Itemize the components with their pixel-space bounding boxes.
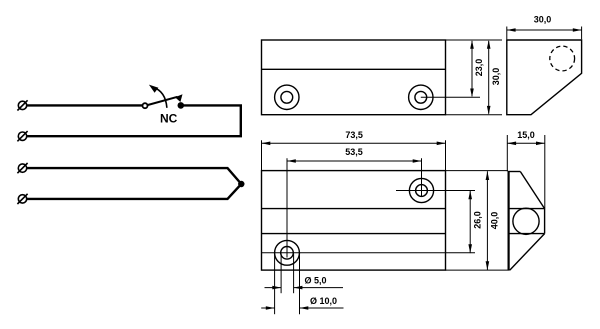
centerline hole H4 [262, 252, 476, 254]
wire W2 [27, 105, 241, 136]
dimension 15,0 [507, 130, 545, 209]
terminal 1 [17, 100, 27, 110]
switch contact dot [178, 102, 185, 109]
dimension 23,0 [470, 40, 484, 97]
svg-text:15,0: 15,0 [517, 130, 535, 140]
svg-text:Ø 10,0: Ø 10,0 [310, 296, 337, 306]
svg-text:53,5: 53,5 [345, 147, 363, 157]
svg-text:30,0: 30,0 [491, 68, 501, 86]
leader from hole H2 [421, 96, 480, 98]
front view hole H2 [409, 85, 433, 109]
terminal 2 [17, 131, 27, 141]
bottom view outline [262, 171, 446, 271]
magnet end view outline [507, 40, 582, 115]
dimension 73,5 [262, 130, 446, 170]
hidden hole dashed [550, 46, 575, 71]
svg-text:Ø 5,0: Ø 5,0 [304, 276, 326, 286]
switch pivot [143, 103, 148, 108]
centerline hole H3 [396, 190, 475, 192]
extension line 53,5 left [286, 158, 288, 257]
switch end view hole [513, 208, 539, 234]
switch end view top chamfer [520, 172, 544, 209]
svg-text:26,0: 26,0 [473, 211, 483, 229]
switch end view left edge [508, 172, 510, 271]
dimension 53,5 [287, 147, 422, 163]
wire W3 [27, 168, 242, 184]
front view hole H1 [275, 85, 299, 109]
wire W4 [27, 184, 242, 199]
switch blade [148, 94, 183, 105]
switch end view top edge [508, 171, 521, 173]
bottom view hole H3 [409, 178, 433, 202]
extension line front bottom [446, 114, 503, 116]
junction node [238, 181, 244, 187]
switch end view band [508, 209, 545, 234]
svg-text:73,5: 73,5 [345, 130, 363, 140]
dimension 30,0 front height [487, 40, 501, 115]
bottom view edge line lower [262, 233, 446, 235]
bottom view edge line upper [262, 208, 446, 210]
dimension 30,0 magnet width [507, 14, 582, 39]
dimension diameter 10,0 [261, 254, 343, 314]
bottom view hole H4 [275, 240, 300, 265]
switch end view bottom chamfer [510, 234, 545, 271]
wire W1 [27, 104, 143, 106]
front view outline [262, 40, 446, 115]
terminal 4 [17, 194, 27, 204]
extension line 53,5 right [421, 158, 423, 196]
svg-text:NC: NC [160, 111, 178, 125]
extension line front top [446, 39, 503, 41]
svg-text:30,0: 30,0 [534, 14, 552, 24]
front view edge line [262, 68, 446, 70]
svg-text:23,0: 23,0 [474, 59, 484, 77]
switch motion arrow [149, 85, 167, 108]
dimension 26,0 [468, 191, 482, 254]
dimension 40,0 [446, 171, 510, 271]
dimension diameter 5,0 [265, 254, 344, 294]
svg-text:40,0: 40,0 [490, 212, 500, 230]
terminal 3 [17, 163, 27, 173]
